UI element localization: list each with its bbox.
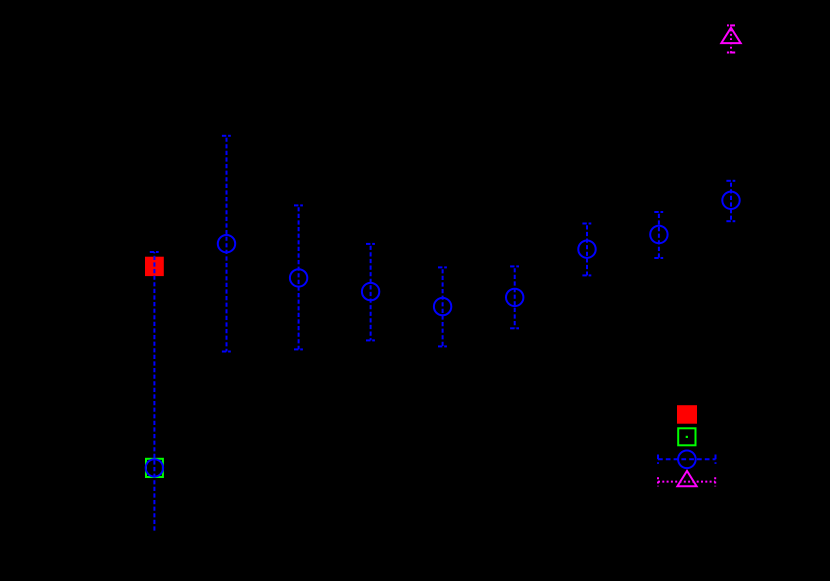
legend blue dashed line with end ticks: [658, 455, 716, 464]
blue dashed error bar 9 (x=731): [726, 181, 735, 221]
legend red filled square: [677, 405, 697, 424]
legend magenta open triangle: [677, 471, 696, 486]
blue open circle point 1 over green square (x=154.4): [146, 459, 163, 476]
blue dashed error bar 7 (x=587): [582, 224, 591, 276]
blue dashed error bar 3 (x=298.6): [294, 205, 303, 349]
legend green open square: [678, 428, 695, 445]
blue circle point 8: [650, 226, 667, 243]
legend blue open circle: [678, 451, 696, 469]
legend magenta dotted line with end ticks: [658, 477, 715, 486]
red filled square point (x=154.4): [145, 257, 164, 276]
magenta dotted error bar (x=731 top): [727, 25, 735, 52]
blue circle point 6: [506, 289, 523, 306]
blue dashed error bar 2 (x=226.5): [222, 136, 231, 352]
blue dashed error bar 6 (x=514.7): [510, 266, 519, 328]
magenta open triangle point (x=731): [721, 28, 740, 43]
blue circle point 2: [218, 235, 235, 252]
blue circle point 4: [362, 283, 379, 300]
blue circle point 3: [290, 269, 307, 286]
blue circle point 5: [434, 298, 451, 315]
blue dashed error bar 8 (x=658.9): [654, 212, 663, 258]
blue dashed error bar 4 (x=370.6): [366, 244, 375, 341]
blue dashed error bar 5 (x=442.6): [438, 267, 447, 346]
legend green center dot: [686, 436, 688, 438]
blue dashed error bar 1 (x=154.4, top cap only): [150, 252, 159, 532]
green open square point (x=154.4): [146, 459, 163, 477]
blue circle point 7: [578, 241, 595, 258]
blue circle point 9: [722, 192, 739, 209]
